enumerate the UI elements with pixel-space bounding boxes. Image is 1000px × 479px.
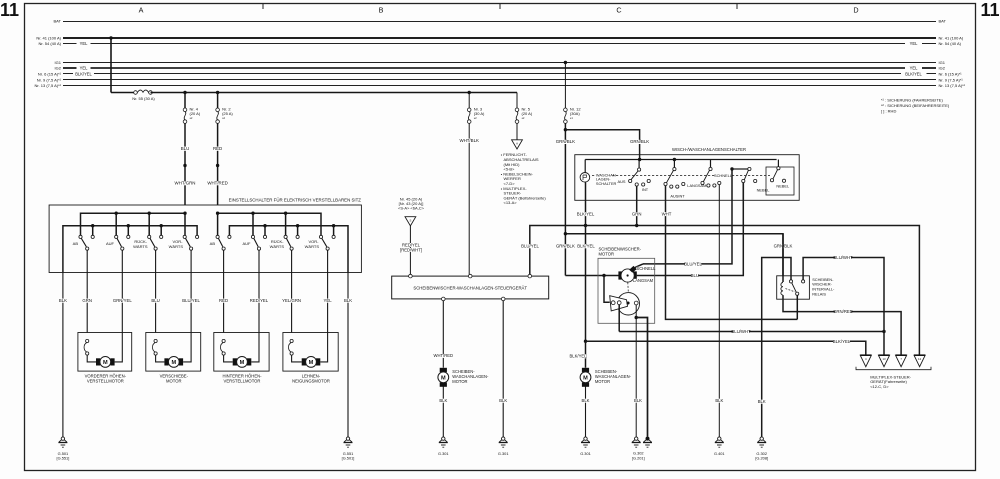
wire IG1 to fuse Nr.12 [564,63,566,109]
wire bus Nr.6 (15A) BLK/YEL [63,73,73,75]
wire BLK/YEL washer signal [585,182,587,340]
svg-text:BAT: BAT [939,19,947,24]
motor box recline [283,333,338,372]
connector arrow to other circuits [512,140,523,149]
junction rail1/sw2 [115,212,118,215]
svg-text:11: 11 [0,0,19,20]
svg-text:BLU/YEL: BLU/YEL [684,262,702,267]
wire cam right to grounds [635,305,637,437]
svg-text:AUS: AUS [618,179,626,184]
svg-text:MOTOR: MOTOR [452,379,467,384]
svg-text:A: A [516,142,518,146]
svg-text:BLK/YEL: BLK/YEL [577,244,595,249]
wire fuse Nr.3 feed [468,93,470,109]
contacts AUS/INT [629,179,632,182]
svg-text:Nr. 6 (15 A)*¹: Nr. 6 (15 A)*¹ [939,71,963,76]
ground G.501 seat left [61,437,64,440]
wire BLK seat output at x=348 [347,273,349,437]
wire bus Nr.9 (7,5A) [63,79,936,81]
wire GRN wiper INT [636,186,638,225]
wire YEL/GRN seat output at x=291.6 [291,250,293,332]
wire right lead into motor [183,333,191,362]
terminal control unit bottom2 [501,297,505,301]
motor M rear height [233,358,237,365]
svg-text:GRN/BLK: GRN/BLK [556,244,575,249]
svg-text:SCHEIBENWISCHER-WASCHANLAGEN-S: SCHEIBENWISCHER-WASCHANLAGEN-STEUERGERÄT [413,286,527,291]
junction wiper motor feed / park [602,274,605,277]
wire bus IG1 [63,62,936,64]
junction on Nr.41 bus [109,36,112,39]
relay coil [782,234,784,282]
wire GRN/BLK main [564,123,566,275]
fast brush tab [629,266,637,273]
svg-text:RELAIS: RELAIS [812,291,826,296]
svg-text:AUSINT: AUSINT [670,194,685,199]
wiper switch pivot [710,160,712,168]
wedge contact 2 [617,301,621,305]
svg-text:[ ] : RHD: [ ] : RHD [881,109,896,114]
relay box SCHEIBENWISCHER-INTERVALL-RELAIS [777,276,810,299]
svg-text:BLK/YEL: BLK/YEL [833,339,851,344]
wire rail2 right group [229,226,348,273]
connector arrow multiplex 3 [896,355,907,367]
svg-text:BLK: BLK [344,298,352,303]
relay armature [796,292,799,295]
wire breaker to motor [292,355,302,362]
wire rail2 left group [63,226,197,273]
svg-text:Nr. 13 (7,5 A)*¹: Nr. 13 (7,5 A)*¹ [35,83,62,88]
wire breaker to motor [87,355,96,362]
svg-text:[G.501]: [G.501] [342,456,355,461]
terminal control unit top2 [468,274,472,278]
wiper switch pivot NEBEL1 [748,167,751,170]
wire RED seat switch feed [217,123,219,205]
breaker contact in front height [86,339,89,342]
wire BLK/YEL to washer motor 2 [585,341,587,368]
wire BLU/YEL + BLK/YEL top interconnect [530,226,920,355]
svg-text:[G.201]: [G.201] [632,455,645,460]
wire BLU/WHT relay to multiplex [803,258,884,355]
wire bus BAT [63,21,936,23]
svg-text:C: C [616,6,621,15]
relay arm [792,283,797,292]
svg-text:[G.208]: [G.208] [755,456,768,461]
switch arm NEBEL2 [773,170,778,179]
wire bus IG2 YEL [63,67,77,69]
wire BLU/YEL fast speed [643,200,732,264]
wire rail1 right group [218,213,321,235]
cam contact right [634,301,638,305]
mechanical link dashed [592,175,770,177]
wire breaker to motor [156,355,165,362]
svg-text:BLK: BLK [439,398,447,403]
wire rail1 left group [81,213,186,235]
svg-text:*² : SICHERUNG (BEIFAHRERSEITE: *² : SICHERUNG (BEIFAHRERSEITE) [881,103,950,108]
svg-text:INT: INT [642,187,649,192]
svg-text:Nr. 41 (100 A): Nr. 41 (100 A) [939,36,964,41]
junction cam ground branch [635,316,638,319]
svg-text:BAT: BAT [54,19,62,24]
seat adjuster switch box EINSTELLSCHALTER [49,205,361,273]
svg-text:Nr. 54 (40 A): Nr. 54 (40 A) [39,41,62,46]
svg-text:EINSTELLSCHALTER FÜR ELEKTRISC: EINSTELLSCHALTER FÜR ELEKTRISCH VERSTELL… [229,198,362,203]
junction rail feed [638,158,641,161]
wire RED/YEL seat output at x=259 [258,250,260,332]
svg-text:BLU: BLU [151,298,159,303]
svg-text:<13-A>: <13-A> [504,200,518,205]
relay coil-arm dashed [786,289,795,292]
svg-text:SCHNELL: SCHNELL [714,173,733,178]
wire tab to BLU/YEL [635,264,643,268]
wire washer motor1 feed WHT/RED [442,301,444,368]
svg-text:WHT/GRN: WHT/GRN [175,181,196,186]
svg-text:Nr. 13 (7,5 A)*¹: Nr. 13 (7,5 A)*¹ [939,83,966,88]
fused rail wire [151,92,518,94]
junction on IG1 bus [564,61,567,64]
svg-text:WÄRTS: WÄRTS [305,244,320,249]
svg-text:BLK: BLK [715,398,723,403]
svg-text:NEIGUNGSMOTOR: NEIGUNGSMOTOR [292,378,330,383]
svg-text:BLK/YEL: BLK/YEL [577,211,595,216]
svg-text:IG1: IG1 [55,60,62,65]
ground G.301 control unit [502,437,505,440]
svg-text:BLK: BLK [59,298,67,303]
wire GRN/BLK branch to wiper switch [565,130,639,160]
park switch wedge [610,296,628,311]
motor M slide [164,358,168,365]
switch seat RUECKWAERTS (recline) [287,239,291,247]
svg-text:SCHALTER: SCHALTER [596,181,617,186]
wire BLU/WHT long [619,331,884,333]
washer motor 2 SCHEIBEN-WASCHANLAGEN-MOTOR [582,368,589,372]
breaker contact in recline [290,339,293,342]
junction rail2/sw3 [160,224,163,227]
svg-text:[G.551]: [G.551] [57,456,70,461]
wire BLU seat switch feed [184,123,186,205]
svg-text:BLU/YEL: BLU/YEL [521,244,539,249]
wire BLU seat output at x=155.6 [155,250,157,332]
svg-text:YEL/GRN: YEL/GRN [282,298,301,303]
svg-text:RED: RED [219,298,228,303]
wire GRN/BLK relay branch [565,234,783,276]
wire to connector arrow [516,123,518,139]
svg-text:Nr. 9 (7,5 A)*¹: Nr. 9 (7,5 A)*¹ [37,77,62,82]
junction fused rail / fuse Nr.2 [216,91,219,94]
svg-text:BLK: BLK [582,398,590,403]
wiper washer switch box WISCH-/WASCHANLAGENSCHALTER [575,155,799,201]
motor M front height [96,358,100,365]
wire fuse Nr.4 feed [184,93,186,109]
svg-text:NEBEL: NEBEL [776,184,790,189]
junction NEBEL feed [730,167,733,170]
svg-text:AB: AB [210,241,216,246]
svg-text:MOTOR: MOTOR [595,379,610,384]
svg-text:G.301: G.301 [498,451,509,456]
motor box front height [78,333,132,372]
svg-text:BLU: BLU [181,146,190,151]
svg-text:Nr. 55 (30 A): Nr. 55 (30 A) [132,96,155,101]
svg-text:Nr. 41 (100 A): Nr. 41 (100 A) [36,36,61,41]
junction BLK/YEL lower [584,340,587,343]
wire NEBEL1 contact down [742,183,744,201]
svg-text:[RED/WHT]: [RED/WHT] [400,247,422,252]
svg-text:BLK: BLK [758,399,766,404]
wire right lead into motor [320,333,327,362]
terminal control unit top1 [409,274,413,278]
wiper switch pivot [673,160,675,168]
wire BLK seat output at x=62.9 [62,273,64,437]
wire fuse Nr.5 feed [516,93,518,109]
relay contact left [789,280,792,283]
svg-text:BLK/YEL: BLK/YEL [75,71,92,76]
ground G.302 [G.201] pair open [635,437,638,440]
svg-text:BLK: BLK [499,398,507,403]
wire RED/YEL to control unit [409,226,411,275]
svg-text:G.401: G.401 [714,451,725,456]
column tick A/B [262,4,264,10]
ground G.302 [G.201] pair filled [646,437,650,441]
svg-text:GRN/YEL: GRN/YEL [113,298,132,303]
junction GRN/BLK main/branch [564,232,567,235]
relay contact right [802,280,805,283]
junction rail2R/sw7 [296,224,299,227]
svg-text:AUF: AUF [243,241,252,246]
fuse Nr.5 (20 A) [515,108,519,112]
multiplex bracket [856,367,931,370]
motor box rear height [214,333,269,372]
svg-text:WISCH-/WASCHANLAGENSCHALTER: WISCH-/WASCHANLAGENSCHALTER [672,147,746,152]
junction rail1/sw3 [148,212,151,215]
wire breaker to motor [224,355,233,362]
svg-text:BLU: BLU [691,273,699,278]
svg-text:Nr. 9 (7,5 A)*¹: Nr. 9 (7,5 A)*¹ [939,77,964,82]
svg-text:LANGSAM: LANGSAM [633,278,654,283]
switch seat AB (front height) [81,239,86,247]
junction fused rail / fuse Nr.3 [468,91,471,94]
svg-text:AB: AB [73,241,79,246]
switch arm AUSINT [667,171,674,183]
washer switch sub-box NEBEL [766,167,794,195]
svg-text:IG2: IG2 [55,66,62,71]
svg-text:WÄRTS: WÄRTS [133,244,148,249]
wire GRN seat output at x=87.2 [86,250,88,332]
wire BLK washer motor 2 [585,386,587,437]
switch seat VORWAERTS (slide) [186,239,191,247]
fuse Nr.12 (30A) [564,108,568,112]
splice on RED wire [216,164,219,167]
svg-text:RED: RED [213,146,222,151]
washer motor 1 SCHEIBEN-WASCHANLAGEN-MOTOR [440,368,447,372]
wire coil to GRN/RED [783,295,901,354]
svg-text:YEL: YEL [324,298,333,303]
connector arrow multiplex 2 [878,355,889,367]
switch seat AUF (rear height) [254,239,258,247]
fuse Nr.4 (20 A) [183,108,187,112]
svg-text:BLK/YEL: BLK/YEL [905,71,922,76]
svg-text:M: M [309,360,314,366]
svg-text:<12-C, D>: <12-C, D> [870,384,889,389]
wire fuse Nr.2 feed [217,93,219,109]
svg-text:GRN/BLK: GRN/BLK [630,139,649,144]
switch arm NEBEL1 [744,170,748,179]
motor M recline [302,358,306,365]
fuse Nr.2 (25 A) [216,108,220,112]
switch arm SCHNELL [703,170,709,181]
switch seat AB (rear height) [219,239,223,247]
svg-text:12: 12 [918,357,922,361]
column tick C/D [736,4,738,10]
wire cam to BLU/WHT [618,305,620,332]
svg-text:M: M [171,360,176,366]
wire GRN/YEL seat output at x=122.3 [121,250,123,332]
wire bus Nr.54 (40 A) YEL [63,43,77,45]
svg-text:YEL: YEL [910,41,918,46]
svg-text:BLU/YEL: BLU/YEL [182,298,200,303]
wire GRN/BLK into wiper motor [565,275,619,277]
wire park switch to G.401 [718,185,720,437]
wire bus Nr.41 (100 A) [63,37,936,39]
switch seat AUF (front height) [117,239,121,247]
wire WHT wiper low [666,186,798,320]
junction rail1R/sw6 [251,212,254,215]
motor box slide [146,333,201,372]
svg-text:B: B [379,6,384,15]
wire relay left contact to ground [762,258,791,437]
switch arm INT [631,171,638,180]
fuse Nr.3 (30 A) [467,108,471,112]
ground G.301 washer motor1 [442,437,445,440]
svg-text:SCHNELL: SCHNELL [637,266,657,271]
wire NEBEL feed down [731,169,733,200]
svg-text:WHT/RED: WHT/RED [207,181,228,186]
svg-text:GRN/RED: GRN/RED [833,309,853,314]
svg-text:Nr. 6 (15 A)*¹: Nr. 6 (15 A)*¹ [38,71,62,76]
cam center [627,302,630,305]
junction rail2/sw2 [127,224,130,227]
svg-text:Nr. 54 (40 A): Nr. 54 (40 A) [939,41,962,46]
switch seat RUECKWAERTS (slide) [150,239,155,247]
wire BLU low speed [637,183,744,276]
svg-text:G.301: G.301 [438,451,449,456]
svg-text:WHT/RED: WHT/RED [434,353,454,358]
svg-text:M: M [103,360,108,366]
svg-text:RED/YEL: RED/YEL [250,298,269,303]
wire bus Nr.13 (7,5A) [63,85,936,87]
svg-text:VERSTELLMOTOR: VERSTELLMOTOR [87,378,124,383]
wiper switch pivot [638,160,640,169]
ground G.302 [G.208] relay [760,437,763,440]
wire YEL seat output at x=327.6 [327,250,329,332]
junction BLK/YEL vertical [584,224,587,227]
svg-text:BLU/WHT: BLU/WHT [731,329,751,334]
contacts AUSINT/LANGSAM [664,182,667,185]
breaker contact in rear height [222,339,225,342]
svg-text:M: M [240,360,245,366]
connector arrow multiplex 4 [914,355,925,367]
svg-text:NEBEL: NEBEL [757,187,771,192]
wire WHT/BLK to control unit [468,123,470,274]
wire BLK washer motor1 to ground [442,386,444,437]
svg-text:13: 13 [882,357,886,361]
ground G.301 washer motor 2 [584,437,587,440]
junction GRN/BLK branch [564,128,567,131]
junction GRN join [635,224,638,227]
svg-text:M: M [441,375,446,381]
svg-text:M: M [583,375,588,381]
svg-text:AUF: AUF [106,241,115,246]
splice on BLU wire [183,164,186,167]
junction rail1R/sw7 [284,212,287,215]
connector arrow Nr.45 [405,217,416,226]
svg-text:WHT/BLK: WHT/BLK [459,138,479,143]
svg-text:BLK/YEL: BLK/YEL [570,354,588,359]
wire park feed [604,276,610,303]
junction rail2R/sw6 [263,224,266,227]
svg-text:MOTOR: MOTOR [166,378,182,383]
svg-text:*¹ : SICHERUNG (FAHRERSEITE): *¹ : SICHERUNG (FAHRERSEITE) [881,98,943,103]
wedge contact 1 [611,301,615,305]
wire RED seat output at x=223.6 [223,250,225,332]
control unit box SCHEIBENWISCHER-WASCHANLAGENSTEUERGERAET [392,276,549,299]
svg-text:<S-A> <6A,C>: <S-A> <6A,C> [398,206,425,211]
wire right lead into motor [251,333,259,362]
junction rail2R/sw8 [332,224,335,227]
svg-text:YEL: YEL [80,66,88,71]
mechanical link motor-cam dashed [627,282,630,292]
wire right lead into motor [115,333,123,362]
svg-text:YEL: YEL [80,41,88,46]
svg-text:GRN/BLK: GRN/BLK [556,139,575,144]
terminal control unit top3 [528,274,532,278]
contacts NEBEL1 [742,179,745,182]
junction rail1R feed WHT-RED [216,212,219,215]
switch seat VORWAERTS (recline) [322,239,327,247]
column tick B/C [499,4,501,10]
breaker contact in slide [154,339,157,342]
contacts NEBEL2 [770,179,773,182]
washer switch WASCHANLAGENSCHALTER [580,173,590,183]
svg-text:IG2: IG2 [939,66,946,71]
wire from Nr.41 bus down to fused rail [110,38,112,93]
svg-text:S: S [409,219,411,223]
terminal control unit bottom1 [442,297,446,301]
junction fused rail / fuse Nr.4 [183,91,186,94]
ground G.551 seat right [346,437,349,440]
junction rail2/sw1 [91,224,94,227]
svg-text:WHT: WHT [662,211,672,216]
ground G.401 [718,437,721,440]
svg-text:YEL: YEL [910,66,918,71]
svg-text:MOTOR: MOTOR [599,252,615,257]
connector arrow multiplex 1 [860,355,871,367]
wire BLU/YEL seat output at x=191.1 [190,250,192,332]
internal feed rail [585,159,776,161]
svg-text:G.301: G.301 [580,451,591,456]
svg-text:BLU/WHT: BLU/WHT [833,255,853,260]
svg-text:IG1: IG1 [939,60,946,65]
wiper motor M [618,271,622,279]
svg-text:A: A [139,6,144,15]
svg-text:GRN: GRN [632,211,642,216]
wire relay armature [796,296,798,320]
wire washer switch drop [584,160,586,173]
junction BLU/WHT [882,330,885,333]
junction rail/AUSINT [673,158,676,161]
wiper switch pivot [777,160,779,167]
svg-text:GRN: GRN [82,298,92,303]
fuse Nr.55 (30 A) [134,91,138,95]
svg-text:D: D [853,6,858,15]
